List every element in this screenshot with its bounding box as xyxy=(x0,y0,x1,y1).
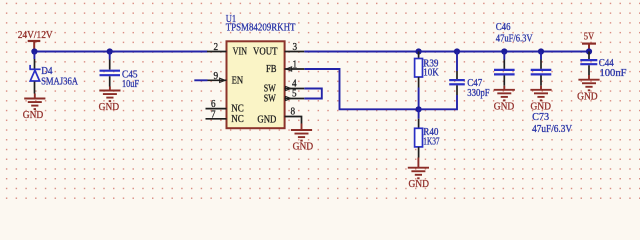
ground (R40) xyxy=(408,158,430,191)
svg-text:SW: SW xyxy=(264,94,276,105)
node C46 junction xyxy=(501,48,507,54)
ground (C44) xyxy=(577,75,599,102)
diode D4 xyxy=(29,59,78,94)
capacitor C46 xyxy=(494,22,533,86)
node C73 junction xyxy=(538,48,544,54)
power port 5V xyxy=(582,31,596,51)
pin 4 SW xyxy=(285,88,305,90)
svg-text:10K: 10K xyxy=(423,68,439,79)
svg-text:24V/12V: 24V/12V xyxy=(18,30,53,41)
ground (C73) xyxy=(530,86,551,113)
node C45 junction xyxy=(107,48,113,54)
ground (D4) xyxy=(23,94,46,122)
node C47 junction xyxy=(454,48,460,54)
svg-text:47uF/6.3V: 47uF/6.3V xyxy=(496,34,533,45)
svg-text:47uF/6.3V: 47uF/6.3V xyxy=(532,124,572,135)
node R39 top junction xyxy=(416,48,422,54)
node FB junction xyxy=(416,106,422,112)
capacitor C45 xyxy=(100,52,140,91)
ground (C45) xyxy=(99,87,121,114)
ground (pin 8) xyxy=(291,124,314,153)
svg-text:GND: GND xyxy=(293,142,314,153)
wire EN stub xyxy=(194,79,207,81)
op-amp U1 (regulator TPSM84209RKHT) xyxy=(226,14,296,128)
svg-text:GND: GND xyxy=(494,101,515,112)
resistor R40 xyxy=(415,109,440,157)
svg-text:1K37: 1K37 xyxy=(423,137,439,148)
svg-text:VOUT: VOUT xyxy=(253,46,278,57)
wire FB node to C47 xyxy=(419,95,457,109)
svg-text:C73: C73 xyxy=(532,112,549,123)
capacitor C47 xyxy=(449,52,490,100)
pin 8 GND xyxy=(285,117,302,124)
node 5V junction xyxy=(586,48,592,54)
svg-text:NC: NC xyxy=(231,114,244,125)
resistor R39 xyxy=(415,52,440,88)
wire SW loop xyxy=(304,89,322,99)
pin 2 VIN xyxy=(207,51,227,53)
capacitor C44 xyxy=(580,52,626,80)
pin 5 SW xyxy=(285,98,305,100)
wire FB net xyxy=(304,69,418,109)
pin 6 NC xyxy=(206,108,227,110)
wire 5V rail xyxy=(304,51,589,53)
pin 9 EN xyxy=(208,79,227,81)
wire 24V rail xyxy=(34,51,207,53)
wire to D4 xyxy=(33,52,35,60)
svg-text:7: 7 xyxy=(211,109,216,120)
svg-text:GND: GND xyxy=(257,115,276,126)
pin 3 VOUT xyxy=(285,51,305,53)
svg-text:10uF: 10uF xyxy=(122,79,139,90)
svg-text:GND: GND xyxy=(99,102,120,113)
svg-text:FB: FB xyxy=(266,64,277,75)
node 24V port junction xyxy=(31,48,37,54)
svg-text:C46: C46 xyxy=(496,22,511,33)
power port 24V/12V xyxy=(18,30,53,52)
svg-text:5: 5 xyxy=(292,89,297,100)
svg-text:SMAJ36A: SMAJ36A xyxy=(41,76,78,87)
svg-text:TPSM84209RKHT: TPSM84209RKHT xyxy=(226,23,296,34)
svg-text:5V: 5V xyxy=(584,31,595,42)
pin 1 FB xyxy=(285,68,305,70)
wire R39 to FB node xyxy=(418,88,420,110)
svg-text:VIN: VIN xyxy=(233,46,248,57)
ground (C46) xyxy=(494,86,515,113)
svg-text:330pF: 330pF xyxy=(467,88,489,99)
svg-text:GND: GND xyxy=(530,101,551,112)
svg-text:2: 2 xyxy=(214,42,219,53)
svg-text:100nF: 100nF xyxy=(600,68,627,79)
svg-text:9: 9 xyxy=(214,71,219,82)
svg-text:3: 3 xyxy=(293,42,298,53)
svg-text:GND: GND xyxy=(408,179,429,190)
svg-text:GND: GND xyxy=(23,110,44,121)
svg-text:GND: GND xyxy=(577,91,598,102)
pin 7 NC xyxy=(206,118,227,120)
svg-text:EN: EN xyxy=(232,75,244,86)
capacitor C73 xyxy=(531,52,573,135)
svg-text:1: 1 xyxy=(293,60,298,71)
svg-text:8: 8 xyxy=(291,107,296,118)
